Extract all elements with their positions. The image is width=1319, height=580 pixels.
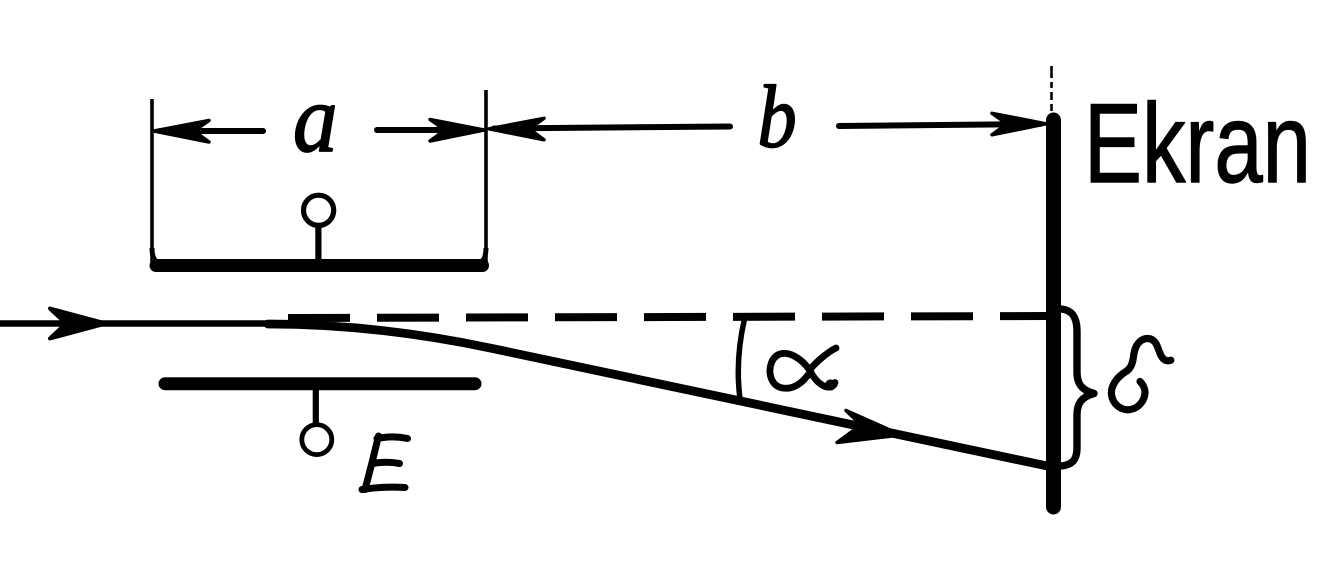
incoming electron ray	[0, 320, 295, 327]
dimension a right arrow	[377, 120, 484, 142]
dimension b right arrow	[839, 113, 1046, 135]
bottom plate terminal circle	[302, 425, 332, 455]
screen guide line above (thin)	[1050, 66, 1053, 111]
incoming ray arrowhead	[50, 309, 106, 339]
trajectory arrowhead	[837, 411, 901, 443]
angle arc	[738, 319, 744, 399]
svg-text:b: b	[758, 68, 797, 167]
top plate terminal stem	[315, 224, 321, 261]
extension line shared by a and b	[484, 90, 488, 262]
label delta	[1111, 338, 1170, 409]
dimension a left arrow	[154, 121, 263, 143]
bottom capacitor plate	[165, 377, 475, 390]
label alpha	[770, 348, 836, 391]
svg-text:Ekran: Ekran	[1084, 81, 1311, 206]
deflection brace	[1061, 309, 1094, 466]
bottom plate terminal stem	[313, 390, 319, 426]
label E	[362, 436, 408, 490]
axis dashed line	[288, 316, 1050, 318]
dimension b left arrow	[489, 118, 730, 140]
top capacitor plate	[156, 259, 483, 272]
svg-text:a: a	[293, 66, 338, 173]
electron trajectory	[268, 324, 1052, 467]
extension line left of dimension a	[150, 99, 154, 262]
screen (Ekran) vertical bar	[1046, 120, 1061, 507]
top plate terminal circle	[304, 195, 334, 225]
